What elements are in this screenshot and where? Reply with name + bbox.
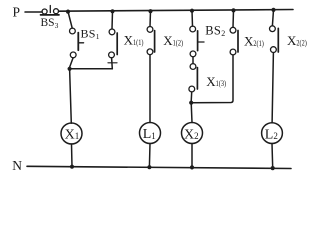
wire down to coil X1 [70, 69, 72, 123]
svg-text:L1: L1 [143, 127, 156, 142]
pushbutton BS3 actuator stem [49, 6, 51, 13]
svg-text:P: P [13, 4, 21, 19]
node junction dot X1/N [70, 165, 74, 169]
wire BS2 to X1(3) [192, 57, 194, 64]
node junction dot branch X2(1) [231, 8, 235, 12]
node junction dot L1/N [147, 165, 151, 169]
wire X1(2) down to L1 [149, 55, 151, 123]
wire parallel join X2(1) branch [191, 55, 233, 103]
contact X2(2) bar [277, 28, 279, 52]
coil X2 [182, 123, 203, 144]
pushbutton BS2 bottom terminal [190, 51, 196, 57]
wire P rail left segment [25, 11, 42, 13]
wire N rail [27, 166, 291, 168]
contact X1(1) bar [116, 33, 118, 55]
contact X1(3) bar [196, 68, 198, 89]
contact X1(1) top terminal [109, 29, 115, 35]
contact X2(1) bottom terminal [230, 49, 236, 55]
node junction dot L2/N [271, 166, 275, 170]
wire coil X1 to N rail [71, 144, 74, 167]
pushbutton BS2 actuator tick [198, 41, 204, 43]
node junction dot branch BS1 [66, 10, 70, 14]
wire L2 to N rail [271, 144, 274, 168]
contact X1(2) bottom terminal [147, 49, 153, 55]
wire parallel join BS1/X1(1) [70, 68, 113, 70]
node junction dot branch X1(2) [148, 9, 152, 13]
svg-text:X2: X2 [184, 128, 199, 143]
wire drop to BS2 [191, 11, 194, 26]
node junction dot branch X1(1) [110, 9, 114, 13]
pushbutton BS2 top terminal [190, 26, 196, 32]
wire X2(2) down to L2 [272, 53, 273, 123]
svg-text:L2: L2 [265, 127, 278, 142]
node junction dot below X1(3) [189, 101, 193, 105]
svg-text:X2(1): X2(1) [244, 34, 264, 49]
contact X1(2) top terminal [147, 27, 153, 33]
wire down to coil X2 [190, 103, 193, 123]
contact X1(2) bar [154, 31, 156, 52]
node junction dot X2/N [190, 165, 194, 169]
svg-text:BS3: BS3 [41, 17, 59, 30]
wire drop to X2(1) [232, 10, 235, 27]
contact X2(1) top terminal [230, 27, 236, 33]
pushbutton BS1 contact bar [77, 33, 79, 51]
wire X1(3) bottom to junction [190, 92, 193, 102]
wire coil X2 to N rail [191, 144, 193, 168]
contact X2(1) bar [237, 31, 239, 53]
wire drop to BS1 [68, 12, 72, 29]
pushbutton BS1 top terminal [70, 28, 76, 34]
contact X1(3) top terminal [190, 64, 196, 70]
contact X1(1) bottom terminal [109, 52, 115, 58]
junction tick X1(1) [108, 62, 117, 64]
coil X1 [61, 123, 82, 144]
svg-text:X1(1): X1(1) [124, 33, 144, 48]
wire drop to X2(2) [272, 10, 273, 26]
contact X2(2) top terminal [270, 26, 276, 32]
wire drop to X1(2) [149, 11, 152, 26]
pushbutton BS2 contact bar [197, 31, 199, 51]
svg-text:N: N [12, 158, 22, 173]
pushbutton BS3 (NC) left terminal [42, 9, 47, 14]
svg-text:X2(2): X2(2) [287, 33, 307, 48]
contact X2(2) bottom terminal [271, 47, 277, 53]
pushbutton BS1 bottom terminal [70, 52, 76, 58]
wire X1(1) bottom to join [111, 58, 114, 69]
svg-text:BS2: BS2 [205, 23, 225, 38]
svg-text:BS1: BS1 [81, 26, 100, 41]
node junction dot branch X2(2) [271, 8, 275, 12]
lamp L1 [140, 123, 161, 144]
lamp L2 [262, 123, 283, 144]
wire L1 to N rail [148, 144, 151, 168]
pushbutton BS3 contact bar [41, 14, 60, 16]
pushbutton BS3 (NC) right terminal [54, 9, 59, 14]
svg-text:X1(3): X1(3) [206, 74, 226, 89]
pushbutton BS1 actuator tick [78, 42, 83, 44]
wire P rail main segment [59, 10, 293, 12]
wire BS1 bottom to junction [70, 58, 73, 67]
svg-text:X1(2): X1(2) [163, 33, 183, 48]
contact X1(3) bottom terminal [189, 86, 195, 92]
node junction dot branch BS2 [190, 9, 194, 13]
node junction dot below BS1 [68, 67, 72, 71]
wire drop to X1(1) [111, 11, 114, 29]
svg-text:X1: X1 [65, 127, 80, 142]
